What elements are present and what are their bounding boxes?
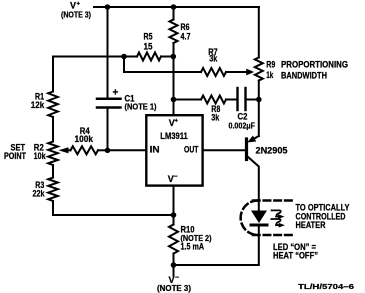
potentiometer R2 — [48, 142, 58, 166]
svg-text:22k: 22k — [33, 188, 46, 198]
svg-text:(NOTE 3): (NOTE 3) — [61, 11, 91, 20]
svg-text:+: + — [77, 2, 81, 8]
wire: IC V- pin down — [173, 186, 175, 225]
svg-text:IN: IN — [150, 144, 160, 154]
wire: R6 bottom to R5 junction — [173, 43, 175, 57]
node: R8 row / IC V+ junction — [171, 97, 177, 103]
svg-text:R10: R10 — [181, 225, 195, 235]
svg-text:R6: R6 — [181, 22, 190, 32]
wire: R5 right lead — [161, 56, 173, 58]
svg-text:R5: R5 — [144, 32, 153, 42]
wire: vertical V+ pin column R5 junction to R8 row — [173, 57, 175, 115]
wire: bottom row to LED cathode column — [174, 226, 259, 265]
svg-text:−: − — [174, 174, 178, 181]
wire: R9 bottom to C2 junction — [258, 81, 260, 100]
wire: top rail right corner down to R9 top — [258, 7, 260, 58]
wire: left rail top horizontal to R5 — [53, 56, 137, 58]
wire: R8 to C2 — [226, 99, 237, 101]
svg-text:(NOTE 1): (NOTE 1) — [125, 103, 157, 112]
svg-text:1.5 mA: 1.5 mA — [181, 242, 205, 252]
wire: R8 row from junction — [174, 99, 202, 101]
node: top rail / R6 junction — [171, 4, 177, 10]
svg-text:2N2905: 2N2905 — [256, 146, 288, 156]
svg-text:15: 15 — [144, 42, 153, 52]
svg-text:0.002μF: 0.002μF — [229, 122, 256, 131]
wire: R2 wiper to R4 — [66, 149, 71, 151]
node: R5/R6 junction — [171, 54, 177, 60]
svg-text:3k: 3k — [211, 113, 220, 123]
svg-text:10k: 10k — [34, 151, 47, 161]
wire: top V+ rail — [94, 6, 259, 8]
wire: IC OUT to transistor base — [204, 149, 246, 151]
wire: R7 to R9 wiper arrow — [226, 71, 248, 73]
wire: C2 to junction — [247, 99, 259, 101]
node: bottom junction — [171, 262, 177, 268]
light ray arrow 1 — [272, 210, 285, 219]
resistor R1 — [48, 92, 58, 118]
transistor Q1 emitter with arrow — [252, 136, 259, 140]
svg-text:(NOTE 3): (NOTE 3) — [157, 284, 191, 293]
LED D1 triangle — [251, 211, 267, 224]
capacitor C2 — [236, 88, 238, 110]
svg-text:C2: C2 — [238, 112, 248, 122]
node: R9/C2/emitter junction — [256, 97, 262, 103]
svg-text:4.7: 4.7 — [181, 32, 191, 42]
LED D1 cathode bar — [251, 224, 267, 227]
svg-text:HEATER: HEATER — [296, 220, 326, 230]
resistor R7 — [201, 68, 226, 76]
wire: C1 bottom to R4 junction — [107, 108, 109, 150]
wiper arrow into R9 — [246, 69, 254, 76]
wiper arrow into R2 — [59, 147, 69, 153]
node: V+ junction to C1 branch — [105, 4, 111, 10]
potentiometer R9 — [255, 58, 263, 81]
wire: emitter up to junction — [258, 100, 260, 137]
wire: drop from R5 left junction to R7 row — [124, 57, 201, 73]
wire: V+ down to C1 top — [107, 7, 109, 98]
resistor R10 — [169, 225, 178, 254]
node: R5 left junction — [121, 54, 127, 60]
wire: R1 to R2 — [52, 117, 54, 142]
svg-text:100k: 100k — [75, 134, 94, 144]
svg-text:TL/H/5704–6: TL/H/5704–6 — [298, 282, 354, 291]
node: R4/C1/IN junction — [105, 148, 111, 154]
svg-text:V: V — [70, 1, 76, 11]
resistor R4 — [71, 146, 99, 154]
resistor R3 — [48, 178, 58, 202]
svg-text:PROPORTIONING: PROPORTIONING — [281, 59, 348, 69]
optocoupler dashed bottom line — [253, 234, 294, 237]
svg-text:LM3911: LM3911 — [160, 131, 188, 141]
capacitor C1 — [97, 98, 121, 101]
svg-text:HEAT “OFF”: HEAT “OFF” — [273, 251, 318, 261]
node: V- row junction — [171, 212, 177, 218]
svg-text:1k: 1k — [266, 70, 274, 80]
svg-text:+: + — [113, 88, 119, 99]
svg-text:3k: 3k — [209, 54, 218, 64]
wire: R10 bottom to bottom junction — [173, 254, 175, 266]
optocoupler dashed top line — [253, 199, 294, 202]
wire: left rail vertical — [52, 57, 54, 92]
svg-text:12k: 12k — [31, 100, 45, 110]
wire: top rail to R6 — [173, 7, 175, 20]
resistor R5 — [137, 53, 161, 61]
wire: bottom junction down to V- terminal — [173, 265, 175, 276]
wire: R3 bottom, corner, to V- junction — [53, 201, 174, 215]
svg-text:−: − — [175, 275, 179, 282]
resistor R8 — [201, 96, 226, 104]
svg-text:R9: R9 — [266, 60, 275, 70]
wire: R4 to C1 junction — [98, 149, 108, 151]
svg-text:POINT: POINT — [4, 151, 26, 161]
wire: R2 to R3 — [52, 165, 54, 178]
optocoupler dashed outline arc — [241, 201, 258, 236]
op-amp U1 LM3911 box — [146, 115, 202, 185]
light ray arrow 2 — [271, 219, 285, 228]
svg-text:BANDWIDTH: BANDWIDTH — [281, 71, 327, 81]
svg-text:OUT: OUT — [184, 144, 199, 154]
transistor Q1 base bar — [245, 139, 248, 160]
svg-text:+: + — [175, 119, 179, 125]
resistor R6 — [170, 20, 178, 44]
transistor Q1 collector — [248, 157, 259, 211]
wire: junction to IC IN pin — [108, 149, 147, 151]
